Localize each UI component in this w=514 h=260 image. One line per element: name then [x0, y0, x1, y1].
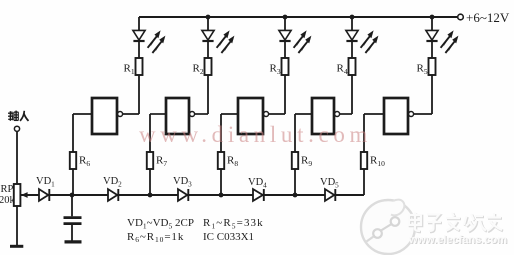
label R8: [227, 155, 238, 169]
inverter gate U3: [238, 98, 269, 134]
label VD3: [173, 176, 192, 189]
note R6~R10=1k: [127, 231, 184, 244]
LED4 (light emitting diode): [346, 30, 358, 41]
note IC C033X1: [203, 231, 254, 243]
diode VD2: [108, 189, 118, 201]
label VD4: [248, 177, 267, 190]
wire: resistor R2 to gate 2 output: [207, 75, 209, 114]
inverter gate U1: [92, 98, 123, 134]
watermark 电子发烧友: [409, 213, 503, 233]
label R7: [156, 155, 167, 169]
label R3: [270, 63, 281, 77]
label RP: [1, 184, 14, 195]
node C junction dot: [219, 193, 224, 198]
note VD1~VD5 2CP: [127, 217, 194, 230]
LED1 emission arrows: [148, 30, 166, 53]
wire: gate U3 input: [221, 113, 238, 115]
svg-text:www.elecfans.com: www.elecfans.com: [408, 234, 507, 246]
label 输入 (input): [8, 111, 29, 121]
junction dot on rail, column 3: [283, 15, 288, 20]
node D junction dot: [293, 193, 298, 198]
label VD1: [36, 176, 55, 189]
label +6~12V: [466, 10, 510, 25]
junction dot on rail, column 5: [430, 15, 435, 20]
wire: RP bottom to ground: [16, 206, 18, 245]
wire: bottom diode chain line: [21, 194, 365, 196]
wire: gate input down to resistor R6: [72, 114, 74, 152]
wire: rail to LED3 anode: [284, 17, 286, 31]
watermark www.elecfans.com: [408, 234, 508, 247]
resistor R3: [282, 58, 289, 75]
wire: gate U4 output to column: [340, 113, 352, 115]
node A junction dot: [70, 193, 75, 198]
wire: resistor R1 to gate 1 output: [138, 75, 140, 114]
wire: gate input down to resistor R7: [149, 114, 151, 152]
wire: rail to LED1 anode: [138, 17, 140, 31]
watermark logo circle: [361, 200, 415, 254]
node B junction dot: [148, 193, 153, 198]
wire: gate U1 output to column: [123, 113, 139, 115]
inverter gate U5: [384, 98, 414, 134]
wire: LED4 cathode to resistor R4: [351, 41, 353, 58]
wire: +V power rail: [139, 16, 458, 18]
wire: resistor R3 to gate 3 output: [284, 75, 286, 114]
inverter gate U2: [166, 98, 195, 134]
wire: resistor R6 to bottom node: [72, 169, 74, 195]
wire: LED5 cathode to resistor R5: [431, 41, 433, 58]
resistor R5: [429, 58, 436, 75]
resistor R1: [136, 58, 143, 75]
wire: gate U5 output to column: [414, 113, 432, 115]
wire: node A down to capacitor C1: [71, 195, 73, 216]
label R5: [417, 63, 428, 77]
resistor R8: [218, 152, 224, 169]
wire: rail to LED5 anode: [431, 17, 433, 31]
wire: resistor R9 to bottom node: [294, 169, 296, 195]
wire: rail to LED4 anode: [351, 17, 353, 31]
LED4 emission arrows: [361, 30, 379, 53]
resistor R9: [292, 152, 298, 169]
svg-text:RP: RP: [1, 184, 14, 195]
inverter gate U4: [312, 98, 340, 134]
resistor R4: [349, 58, 356, 75]
label R9: [301, 155, 312, 169]
wire: gate U2 output to column: [195, 113, 208, 115]
LED2 emission arrows: [217, 30, 235, 53]
label VD5: [320, 177, 339, 190]
label R1: [124, 63, 135, 77]
resistor R6: [70, 152, 76, 169]
wire: gate U3 output to column: [269, 113, 285, 115]
resistor R10: [361, 152, 367, 169]
diode VD5: [325, 189, 335, 201]
wire: gate input down to resistor R10: [363, 114, 365, 152]
label R10: [370, 155, 385, 169]
ground (RP): [10, 245, 23, 248]
wire: gate input down to resistor R9: [294, 114, 296, 152]
potentiometer RP: [14, 184, 28, 206]
watermark www.dianlut.com: [139, 122, 372, 147]
LED3 (light emitting diode): [279, 30, 291, 41]
LED5 emission arrows: [441, 30, 459, 53]
resistor R2: [205, 58, 212, 75]
wire: LED3 cathode to resistor R3: [284, 41, 286, 58]
svg-text:+6~12V: +6~12V: [466, 10, 510, 25]
ground (capacitor): [65, 240, 82, 243]
input terminal: [14, 126, 19, 131]
label R4: [337, 63, 348, 77]
wire: resistor R7 to bottom node: [149, 169, 151, 195]
junction dot on rail, column 4: [350, 15, 355, 20]
label VD2: [103, 176, 122, 189]
wire: resistor R4 to gate 4 output: [351, 75, 353, 114]
label R2: [193, 63, 204, 77]
wire: LED1 cathode to resistor R1: [138, 41, 140, 58]
LED1 (light emitting diode): [133, 30, 145, 41]
svg-text:20k: 20k: [0, 195, 16, 206]
wire: resistor R5 to gate 5 output: [431, 75, 433, 114]
wire: rail to LED2 anode: [207, 17, 209, 31]
wire: resistor R10 to bottom node: [363, 169, 365, 195]
wire: LED2 cathode to resistor R2: [207, 41, 209, 58]
wire: gate U1 input: [73, 113, 92, 115]
wire: gate U5 input: [364, 113, 384, 115]
note R1~R5=33k: [203, 217, 264, 230]
wire: capacitor C1 to ground: [71, 225, 73, 241]
wire: gate U4 input: [295, 113, 312, 115]
resistor R7: [147, 152, 153, 169]
svg-text:www.dianlut.com: www.dianlut.com: [139, 122, 372, 147]
LED2 (light emitting diode): [202, 30, 214, 41]
LED5 (light emitting diode): [426, 30, 438, 41]
diode VD1: [39, 189, 49, 201]
LED3 emission arrows: [294, 30, 312, 53]
wire: gate input down to resistor R8: [220, 114, 222, 152]
label 20k: [0, 195, 16, 206]
svg-text:VD1~VD5 2CP: VD1~VD5 2CP: [127, 217, 194, 230]
junction dot on rail, column 2: [206, 15, 211, 20]
wire: gate U2 input: [150, 113, 166, 115]
diode VD4: [253, 189, 264, 201]
label R6: [79, 155, 90, 169]
capacitor C1: [64, 218, 82, 224]
svg-text:IC C033X1: IC C033X1: [203, 231, 254, 243]
wire: resistor R8 to bottom node: [220, 169, 222, 195]
diode VD3: [178, 189, 188, 201]
terminal +6~12V: [458, 14, 464, 20]
wire: input terminal to RP: [16, 132, 18, 185]
